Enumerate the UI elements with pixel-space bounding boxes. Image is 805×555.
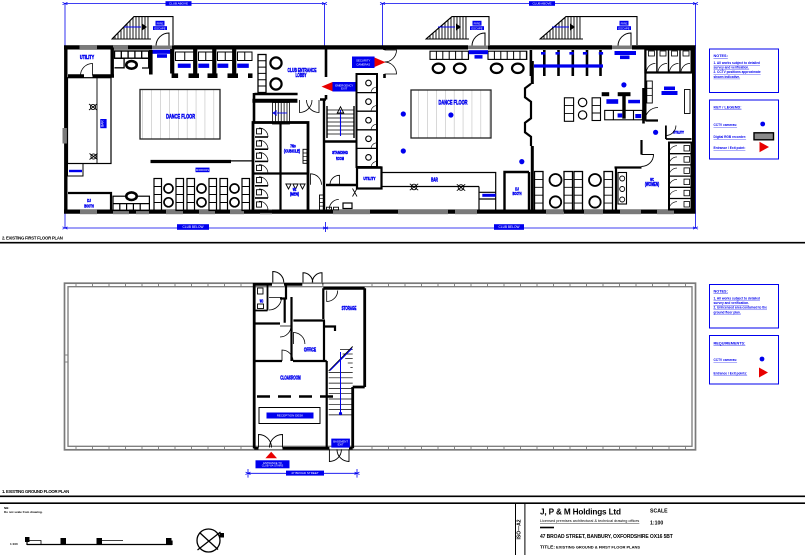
svg-text:Digital RGB recorder:: Digital RGB recorder: — [714, 135, 747, 139]
svg-text:DANCE FLOOR: DANCE FLOOR — [439, 100, 468, 107]
lobby tables — [270, 57, 281, 68]
title strip top rule — [0, 502, 805, 504]
svg-text:47 BROAD STREET, BANBURY, OXFO: 47 BROAD STREET, BANBURY, OXFORDSHIRE OX… — [540, 534, 673, 540]
svg-text:1. All works subject to detail: 1. All works subject to detailed — [714, 297, 761, 301]
bar taps — [89, 104, 98, 160]
room UTILITY mid — [357, 168, 382, 189]
svg-text:2. CCTV positions approximate: 2. CCTV positions approximate — [714, 70, 761, 74]
red entrance triangle — [265, 452, 277, 458]
svg-text:RECEPTION DESK: RECEPTION DESK — [277, 414, 304, 418]
dim label CLUB ABOVE left — [166, 1, 192, 6]
rule under ground floor caption — [0, 495, 805, 497]
booth seating row — [151, 161, 253, 211]
dimension line bottom — [65, 222, 696, 232]
extension line right — [695, 45, 697, 228]
outer wall right — [692, 46, 695, 214]
room DJ BOOTH left — [68, 193, 111, 211]
center block outer walls — [254, 283, 365, 449]
svg-text:Entrance / Exit points:: Entrance / Exit points: — [714, 372, 748, 376]
svg-text:BAR: BAR — [101, 120, 105, 127]
T tables + bench booths — [602, 88, 643, 124]
outer wall bottom — [64, 210, 696, 214]
fire exit door top right — [618, 33, 631, 46]
requirements box — [710, 336, 779, 385]
svg-text:ESCAPE: ESCAPE — [618, 26, 629, 30]
chip reception desk — [267, 413, 314, 419]
chip fire door 1 — [152, 50, 172, 54]
svg-text:LOBBY: LOBBY — [295, 73, 306, 79]
sofas + round tables — [564, 98, 600, 122]
lobby double door — [300, 100, 313, 113]
dim label 47 broad street — [286, 471, 324, 476]
svg-text:UTILITY: UTILITY — [363, 176, 375, 181]
legend cctv dot — [760, 122, 765, 127]
toilets block MEN — [253, 123, 308, 212]
svg-text:BAR: BAR — [431, 178, 438, 184]
utility small right — [666, 126, 692, 140]
small table oval — [126, 61, 136, 69]
svg-text:FIRE: FIRE — [621, 22, 628, 26]
svg-text:1. All works subject to detail: 1. All works subject to detailed — [714, 61, 761, 65]
svg-text:ESCAPE: ESCAPE — [471, 26, 482, 30]
dimension line top-right CLUB ABOVE — [383, 4, 696, 46]
svg-text:shown indicative.: shown indicative. — [714, 75, 741, 79]
cloak bay chip 1 — [178, 64, 191, 68]
svg-text:CLUB BELOW: CLUB BELOW — [183, 225, 204, 229]
svg-text:FIRE: FIRE — [474, 22, 481, 26]
svg-text:(MEN): (MEN) — [290, 192, 299, 197]
fire escape stair 2 — [426, 17, 489, 45]
entrance chip label — [256, 460, 290, 468]
svg-text:OFFICE: OFFICE — [304, 347, 317, 353]
booth row bottom right — [535, 140, 642, 211]
notes box ground floor — [710, 285, 779, 329]
legend entrance arrow — [760, 142, 770, 152]
svg-text:STORAGE: STORAGE — [342, 306, 357, 312]
svg-text:CLUB ABOVE: CLUB ABOVE — [169, 2, 188, 6]
cloakroom dashed counter — [257, 395, 335, 398]
svg-text:1. EXISTING GROUND FLOOR PLAN: 1. EXISTING GROUND FLOOR PLAN — [2, 489, 69, 494]
svg-text:survey and verification.: survey and verification. — [714, 301, 750, 305]
bottom right door ground — [329, 450, 341, 462]
blue dot cctv — [621, 82, 626, 87]
chip emergency exit + red arrow left — [322, 82, 333, 91]
cloak bay chip 3 — [217, 64, 228, 68]
svg-text:FIRE: FIRE — [157, 22, 164, 26]
separator tick — [540, 527, 554, 529]
svg-text:Licensed premises architectura: Licensed premises architectural & techni… — [540, 519, 639, 523]
svg-text:CAMERAS: CAMERAS — [356, 62, 370, 66]
svg-text:1:100: 1:100 — [650, 521, 663, 527]
svg-text:CCTV cameras:: CCTV cameras: — [714, 358, 738, 362]
svg-text:47 BROAD STREET: 47 BROAD STREET — [291, 471, 319, 475]
svg-text:(CUBICLE): (CUBICLE) — [284, 149, 301, 154]
svg-text:ground floor plan.: ground floor plan. — [714, 310, 741, 314]
blue post markers — [541, 52, 603, 55]
svg-text:2. Unlicensed area contained t: 2. Unlicensed area contained to the — [714, 306, 768, 310]
masonry joints — [65, 283, 686, 450]
svg-text:Do not scale from drawing.: Do not scale from drawing. — [4, 510, 43, 514]
entrance double door ground — [259, 435, 272, 448]
svg-text:MIRRORS: MIRRORS — [196, 168, 209, 172]
standing room doors — [311, 174, 322, 185]
cloak bays row — [172, 49, 234, 74]
title block vertical rules — [515, 503, 517, 555]
svg-text:DJ: DJ — [87, 198, 91, 204]
requirements cctv dot — [760, 357, 765, 362]
corner door arc wc women — [642, 155, 654, 167]
svg-text:REQUIREMENTS:: REQUIREMENTS: — [714, 342, 746, 346]
svg-text:CLUB ABOVE: CLUB ABOVE — [532, 2, 551, 6]
svg-text:1:100: 1:100 — [10, 542, 18, 546]
north arrow symbol — [197, 529, 224, 552]
lobby walls — [254, 46, 326, 124]
lobby counter — [258, 55, 266, 93]
standing room walls — [324, 99, 382, 211]
dfs column — [303, 149, 307, 163]
cubicle column mid-right — [357, 74, 378, 167]
outer wall left — [64, 46, 67, 214]
svg-text:J, P & M Holdings Ltd: J, P & M Holdings Ltd — [540, 508, 621, 517]
room UTILITY top-left — [68, 48, 114, 77]
svg-text:STANDING: STANDING — [332, 150, 348, 156]
wc room ground — [256, 284, 268, 310]
booth chip 2 — [628, 100, 640, 104]
small table oval 2 — [126, 192, 136, 200]
fire escape door 1 — [156, 33, 169, 46]
chip security entrance + red arrow right — [352, 57, 375, 69]
outer wall top — [64, 45, 696, 49]
ground door arcs — [269, 298, 282, 311]
cleaner store room — [320, 185, 358, 210]
partition wall + zigzag bay — [531, 61, 534, 211]
rule under first floor caption — [0, 242, 805, 244]
bar left (long) — [68, 78, 112, 176]
room DJ BOOTH right — [505, 172, 530, 211]
window infill segments gray — [63, 46, 675, 215]
urinal triangles — [286, 184, 305, 189]
bar stools — [433, 64, 524, 73]
notes box first floor — [710, 49, 779, 93]
svg-text:EXIT: EXIT — [338, 443, 344, 447]
dimension 47 broad street — [248, 469, 357, 478]
WC cubicles column — [255, 128, 268, 210]
cloak bay chip 4 — [237, 64, 249, 68]
svg-text:BOOTH: BOOTH — [84, 203, 94, 209]
svg-text:Entrance / Exit point:: Entrance / Exit point: — [714, 146, 746, 150]
svg-text:DANCE FLOOR: DANCE FLOOR — [166, 114, 195, 121]
counter bottom-left — [113, 196, 149, 210]
dimension line top-left CLUB ABOVE — [65, 4, 325, 46]
svg-text:EXIT: EXIT — [341, 86, 348, 90]
svg-text:NOTES:: NOTES: — [714, 54, 728, 58]
dance floor 2 — [411, 90, 491, 138]
svg-text:CCTV cameras:: CCTV cameras: — [714, 123, 738, 127]
stairs ground — [329, 347, 353, 415]
svg-text:2. EXISTING FIRST FLOOR PLAN: 2. EXISTING FIRST FLOOR PLAN — [2, 236, 63, 241]
svg-text:survey and verification.: survey and verification. — [714, 66, 750, 70]
high counter posts — [531, 50, 601, 76]
svg-text:(WOMEN): (WOMEN) — [645, 182, 659, 188]
basement exit chip — [331, 439, 350, 448]
back bar counter top-left — [115, 50, 151, 75]
blue dots cctv center — [401, 111, 406, 116]
ground outline inner gray — [68, 287, 692, 447]
top double door 2 — [303, 273, 313, 283]
key legend box — [710, 100, 779, 159]
svg-text:WC: WC — [260, 299, 264, 304]
booth chip 1 — [606, 99, 618, 104]
cloak bay chip 2 — [198, 64, 209, 68]
wc block top right — [645, 50, 691, 73]
lobby lower wall — [252, 99, 297, 103]
reception desk — [259, 408, 320, 424]
top bar counters — [430, 51, 527, 59]
dim label bottom right — [494, 224, 524, 230]
chip fire exit top right — [615, 51, 637, 55]
fire escape stair 1 — [112, 17, 173, 45]
svg-text:BOOTH: BOOTH — [513, 191, 522, 196]
blue dot cctv 3 — [519, 159, 524, 164]
svg-text:KEY / LEGEND:: KEY / LEGEND: — [714, 106, 742, 110]
chip bar exit — [469, 50, 488, 54]
small stairs lobby — [273, 103, 290, 125]
svg-text:ROOM: ROOM — [336, 156, 344, 162]
utility door — [81, 64, 93, 76]
red arrow right — [375, 58, 386, 68]
fire escape stair 3 — [540, 17, 637, 45]
dim label bottom left — [177, 224, 209, 230]
keg room — [645, 50, 692, 121]
bar counter center-bottom — [382, 173, 496, 211]
svg-text:CLUB VIA STAIRS: CLUB VIA STAIRS — [262, 464, 284, 468]
blue dot cctv 2 — [653, 130, 658, 135]
dance floor 1 — [140, 90, 220, 140]
svg-text:UTILITY: UTILITY — [80, 55, 95, 61]
dim label CLUB ABOVE right — [529, 1, 555, 6]
top door 1 single leaf — [273, 272, 284, 283]
main stairs center — [327, 106, 354, 138]
ground outline outer gray — [65, 283, 696, 450]
svg-text:SCALE: SCALE — [650, 509, 668, 515]
corridor right wall + door — [383, 46, 386, 79]
svg-text:CLUB BELOW: CLUB BELOW — [499, 225, 520, 229]
requirements entrance arrow — [759, 368, 768, 378]
fire escape door 2 — [472, 33, 485, 46]
blue counter line — [534, 64, 603, 67]
svg-text:ISO—A2: ISO—A2 — [517, 519, 523, 539]
svg-text:ESCAPE: ESCAPE — [154, 26, 165, 30]
scale bar — [26, 538, 173, 546]
ground internal walls — [256, 284, 336, 448]
legend recorder symbol — [754, 133, 774, 140]
label mirrors — [196, 168, 210, 173]
extension line left — [64, 45, 66, 228]
svg-text:NOTES:: NOTES: — [714, 290, 728, 294]
svg-text:CLOAKROOM: CLOAKROOM — [280, 376, 301, 382]
wc column right (women) — [669, 143, 692, 210]
